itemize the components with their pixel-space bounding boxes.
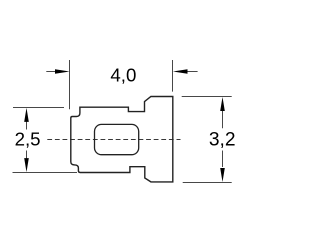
dimension 3,2 : arrows <box>220 97 225 111</box>
dimension 4,0 : dimension line stubs <box>46 71 197 73</box>
dimension 3,2 : dimension line shafts <box>222 111 224 167</box>
svg-text:3,2: 3,2 <box>209 129 236 150</box>
dimension 4,0 : extension lines <box>70 60 173 109</box>
dimension 4,0 : arrows <box>55 69 70 74</box>
part outline <box>71 97 173 182</box>
hole (rounded rectangle) <box>95 124 139 154</box>
dimension 3,2 : extension lines <box>182 97 232 183</box>
dimension 2,5 : extension lines <box>13 108 78 173</box>
dimension 2,5 : dimension line shafts <box>26 120 28 160</box>
dimension 2,5 : arrows <box>24 108 29 122</box>
svg-text:4,0: 4,0 <box>110 64 136 85</box>
svg-text:2,5: 2,5 <box>15 128 41 149</box>
center line (dashed) <box>47 139 180 141</box>
